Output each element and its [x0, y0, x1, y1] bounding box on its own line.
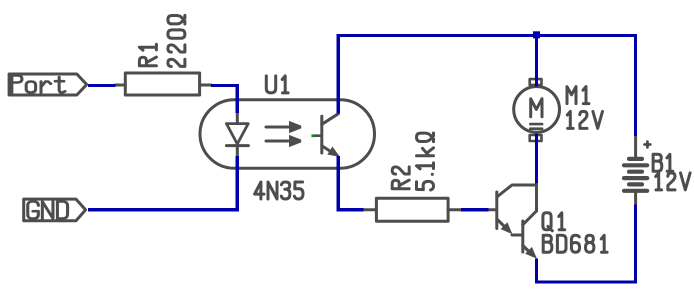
- base bar 1: [495, 192, 498, 229]
- wire R2 to Q1 base: [461, 208, 488, 211]
- emitter 1 with arrow: [497, 219, 506, 228]
- tag Port: [9, 74, 87, 95]
- collector 2: [523, 211, 537, 225]
- collector 1: [497, 185, 537, 211]
- wire Q1 emitter, bottom rail, to battery minus: [537, 205, 636, 282]
- junction dot: [533, 31, 540, 38]
- plus sign: [645, 142, 651, 148]
- bottom pin: [634, 192, 637, 205]
- transistor Q1 (darlington): [488, 185, 607, 259]
- commutator lines: [530, 124, 542, 129]
- M1 label: [567, 87, 589, 104]
- LED inside U1: [236, 113, 239, 124]
- U1 label: [266, 76, 288, 93]
- wire Port to R1: [88, 84, 116, 87]
- 12V label: [656, 173, 690, 190]
- wire junction to motor top: [535, 35, 538, 87]
- 12V label: [567, 111, 602, 128]
- B1 label: [653, 154, 673, 171]
- Q1 label: [543, 213, 565, 231]
- light arrows: [266, 126, 288, 129]
- phototransistor: [320, 116, 323, 153]
- optocoupler U1: [200, 76, 375, 199]
- plates: [629, 157, 642, 161]
- wire opto emitter down to R2: [338, 156, 363, 210]
- tag GND: [24, 199, 86, 221]
- node base (green): [311, 134, 314, 137]
- M letter: [531, 99, 542, 117]
- resistor R2: [364, 133, 462, 221]
- battery B1: [624, 136, 690, 205]
- wire motor bottom to Q1 collector: [535, 134, 538, 184]
- motor M1: [514, 79, 603, 141]
- resistor R1: [116, 15, 212, 95]
- wire R1 to LED anode: [211, 85, 237, 112]
- base pin: [488, 208, 495, 211]
- wire collector rail: opto collector up, top rail, battery drop: [338, 35, 635, 135]
- 4N35 label: [255, 182, 303, 199]
- wire LED cathode to GND tag: [88, 156, 237, 210]
- BD681 label: [543, 235, 607, 252]
- emitter 2 with arrow: [523, 246, 531, 254]
- top pin: [634, 136, 637, 157]
- base bar 2: [521, 221, 524, 252]
